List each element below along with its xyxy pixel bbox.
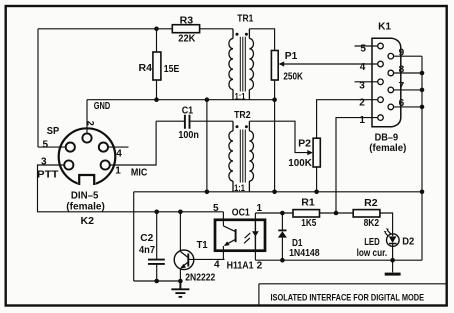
svg-text:T1: T1 xyxy=(197,240,208,251)
pin 1 lead xyxy=(254,213,256,220)
svg-text:GND: GND xyxy=(94,101,111,112)
svg-text:P1: P1 xyxy=(285,51,298,62)
optocoupler OC1 xyxy=(213,203,265,272)
svg-text:6: 6 xyxy=(399,98,405,109)
DIN pin 4 xyxy=(99,143,108,152)
LED D2 xyxy=(357,228,415,260)
svg-text:4: 4 xyxy=(360,62,366,73)
node P1 drop junction xyxy=(272,190,277,195)
node R1/R2 junction xyxy=(334,211,339,216)
svg-text:3: 3 xyxy=(41,157,47,168)
wire P1 wiper to DB9 pin 4 xyxy=(282,63,378,65)
node D1 bottom junction xyxy=(280,258,285,263)
svg-text:5: 5 xyxy=(43,139,49,150)
node T1 collector junction xyxy=(178,210,183,215)
wire SP vertical xyxy=(38,29,66,147)
node pin6 bus junction xyxy=(420,105,425,110)
transformer TR1 xyxy=(229,14,254,103)
svg-text:2: 2 xyxy=(257,260,263,271)
resistor R1 xyxy=(293,210,320,217)
diode D1 xyxy=(278,213,320,260)
svg-text:D2: D2 xyxy=(402,237,414,248)
svg-text:1: 1 xyxy=(257,203,263,214)
DB9 pin 2 xyxy=(378,97,384,103)
wire R4 bottom lead xyxy=(156,80,158,100)
svg-text:LED: LED xyxy=(364,237,380,248)
LED inside OC1 xyxy=(254,220,256,251)
svg-text:R4: R4 xyxy=(139,63,153,74)
svg-text:9: 9 xyxy=(399,48,405,59)
svg-text:22K: 22K xyxy=(178,33,196,44)
svg-text:1K5: 1K5 xyxy=(301,218,316,229)
wire cross-link vertical xyxy=(206,100,208,192)
pin 5 lead xyxy=(222,212,224,226)
node C2 top junction xyxy=(154,210,159,215)
pin 2 lead xyxy=(254,251,256,261)
svg-text:100n: 100n xyxy=(178,130,199,141)
svg-text:4: 4 xyxy=(214,260,220,271)
DB9 pin 3 xyxy=(378,79,384,85)
wire GND drop to DIN pin 2 xyxy=(86,100,88,134)
svg-text:100K: 100K xyxy=(288,158,312,169)
wire bottom isolated rail xyxy=(255,259,422,261)
wire PTT run to OC1 pin 5 xyxy=(38,165,224,212)
wire R2 to LED xyxy=(380,213,393,234)
svg-text:250K: 250K xyxy=(283,72,303,83)
node R4 junction xyxy=(154,97,159,102)
svg-text:1N4148: 1N4148 xyxy=(289,248,320,259)
wire rail drop to emitter rail xyxy=(133,192,135,281)
transistor T1 xyxy=(174,212,224,283)
svg-text:1: 1 xyxy=(359,115,365,126)
wire OC1 pin1 rail to R1 xyxy=(255,212,293,214)
node pin8 bus junction xyxy=(420,71,425,76)
DB9 pin 5 xyxy=(378,43,384,49)
svg-text:4n7: 4n7 xyxy=(139,245,155,256)
svg-text:SP: SP xyxy=(47,126,60,137)
node junction R3/R4 xyxy=(154,27,159,32)
DIN pin 2 xyxy=(82,133,91,142)
wire right bus xyxy=(421,56,423,260)
light slashes xyxy=(244,233,250,243)
wire TR1 secondary top to P1 xyxy=(249,29,274,51)
svg-text:3: 3 xyxy=(359,80,365,91)
title block box xyxy=(259,284,446,305)
wire R1 to R2 xyxy=(320,212,354,214)
phototransistor inside OC1 xyxy=(223,226,235,232)
svg-text:2: 2 xyxy=(86,121,96,126)
svg-text:K1: K1 xyxy=(378,21,391,32)
svg-text:4: 4 xyxy=(116,148,122,159)
svg-text:1: 1 xyxy=(115,166,121,177)
connector K2 DIN-5 xyxy=(41,121,122,227)
wire TR2 secondary top to P2 wiper xyxy=(249,121,310,152)
wire P1 bottom lead xyxy=(274,80,276,100)
chassis ground bar xyxy=(392,260,394,272)
svg-text:TR2: TR2 xyxy=(234,110,251,121)
svg-text:5: 5 xyxy=(360,43,366,54)
svg-text:R1: R1 xyxy=(301,197,315,208)
wire MIC run to C1 xyxy=(110,121,156,165)
node P2 bottom junction xyxy=(314,190,319,195)
svg-text:K2: K2 xyxy=(81,216,95,227)
wire P1 bottom down to bottom rail xyxy=(274,100,276,192)
svg-text:2N2222: 2N2222 xyxy=(185,272,215,283)
svg-text:R3: R3 xyxy=(180,16,194,27)
svg-text:(female): (female) xyxy=(369,143,406,154)
node right bus junction xyxy=(420,190,425,195)
svg-text:DIN–5: DIN–5 xyxy=(71,190,99,201)
svg-text:DB–9: DB–9 xyxy=(375,132,399,143)
node D1 top junction xyxy=(280,211,285,216)
DB9 pin 4 xyxy=(378,61,384,67)
potentiometer P2 xyxy=(313,138,320,167)
svg-text:H11A1: H11A1 xyxy=(227,261,254,272)
node C2 bottom junction xyxy=(154,279,159,284)
svg-text:(female): (female) xyxy=(66,201,105,212)
svg-text:5: 5 xyxy=(213,203,219,214)
DB9 pin 9 xyxy=(388,53,394,59)
DB9 pin 7 xyxy=(388,87,394,93)
pin 4 lead xyxy=(222,246,224,259)
resistor R2 xyxy=(353,210,380,217)
wire bottom common rail xyxy=(134,191,422,193)
wire top rail from SP corner to R3 xyxy=(38,28,172,30)
potentiometer P1 xyxy=(271,51,278,81)
wire emitter bottom rail xyxy=(134,280,181,282)
node LED bottom junction xyxy=(390,258,395,263)
svg-text:8: 8 xyxy=(399,64,405,75)
svg-text:2: 2 xyxy=(359,98,365,109)
DIN pin 1 xyxy=(101,160,110,169)
svg-text:15E: 15E xyxy=(164,64,180,75)
wire GND rail xyxy=(87,99,275,101)
resistor R3 xyxy=(172,25,199,33)
DB9 pin 8 xyxy=(388,70,394,76)
node cross-link junction xyxy=(205,97,210,102)
svg-text:PTT: PTT xyxy=(37,170,59,181)
ground xyxy=(171,281,189,297)
svg-text:8K2: 8K2 xyxy=(364,218,380,229)
svg-text:low cur.: low cur. xyxy=(357,248,388,259)
wire R3 to TR1 primary top xyxy=(200,28,233,30)
svg-text:C2: C2 xyxy=(140,233,153,244)
resistor R4 xyxy=(153,52,161,80)
connector K1 DB-9 xyxy=(355,21,423,153)
svg-text:1:1: 1:1 xyxy=(235,92,246,103)
DIN pin 3 xyxy=(64,160,73,169)
node pin7 bus junction xyxy=(420,88,425,93)
wire P2 bottom lead xyxy=(316,167,318,192)
svg-text:MIC: MIC xyxy=(131,168,148,179)
node emitter/ground junction xyxy=(178,279,183,284)
svg-text:7: 7 xyxy=(399,81,405,92)
DB9 pin 1 xyxy=(378,115,384,121)
capacitor C1 xyxy=(156,105,233,141)
transformer TR2 xyxy=(229,110,254,194)
capacitor C2 xyxy=(139,212,165,281)
node P1 bottom junction xyxy=(272,97,277,102)
svg-text:P2: P2 xyxy=(298,138,311,149)
DIN pin 5 xyxy=(66,143,75,152)
wire DB9 pin1 drop xyxy=(336,118,378,213)
wire DIN pin4 stub xyxy=(108,146,129,148)
svg-text:TR1: TR1 xyxy=(237,14,253,25)
svg-text:OC1: OC1 xyxy=(232,207,250,218)
wire R4 top lead xyxy=(156,29,158,52)
svg-text:ISOLATED INTERFACE FOR DIGITAL: ISOLATED INTERFACE FOR DIGITAL MODE xyxy=(271,292,425,302)
svg-text:C1: C1 xyxy=(182,105,194,116)
svg-text:R2: R2 xyxy=(364,198,378,209)
wire P2 top to DB9 pin 2 xyxy=(317,100,378,139)
DB9 pin 6 xyxy=(388,104,394,110)
node cross-link bottom junction xyxy=(205,190,210,195)
